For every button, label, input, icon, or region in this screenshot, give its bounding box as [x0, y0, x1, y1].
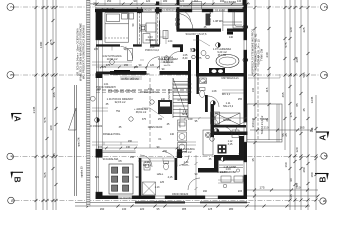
svg-text:HALL 5,2: HALL 5,2 [223, 105, 234, 108]
svg-text:525: 525 [95, 176, 100, 179]
svg-text:K1: K1 [158, 138, 162, 141]
svg-text:150: 150 [130, 156, 135, 159]
svg-text:75: 75 [199, 57, 202, 60]
svg-text:95: 95 [157, 207, 160, 210]
svg-text:215: 215 [238, 190, 243, 193]
svg-text:175: 175 [289, 112, 293, 117]
svg-text:300: 300 [49, 125, 53, 130]
svg-text:2145: 2145 [32, 106, 36, 113]
svg-text:SPIZ.: SPIZ. [182, 113, 189, 116]
svg-text:120: 120 [150, 64, 155, 67]
svg-text:525: 525 [43, 172, 47, 177]
svg-text:1400: 1400 [39, 41, 43, 48]
svg-text:255: 255 [158, 118, 163, 121]
svg-text:290: 290 [100, 207, 105, 210]
svg-text:290: 290 [128, 140, 133, 143]
svg-text:120: 120 [295, 147, 299, 152]
svg-text:3: 3 [323, 73, 328, 76]
svg-text:85: 85 [295, 183, 299, 187]
svg-text:1.09: 1.09 [188, 118, 193, 121]
svg-text:KOMIN SPAL.: KOMIN SPAL. [209, 11, 212, 25]
svg-text:spad 2%: spad 2% [78, 136, 81, 146]
svg-text:125: 125 [160, 181, 165, 184]
svg-text:90: 90 [136, 176, 139, 179]
svg-text:90: 90 [124, 48, 127, 51]
svg-text:2: 2 [10, 5, 15, 8]
svg-text:115: 115 [265, 87, 269, 92]
svg-text:H=270: H=270 [164, 65, 171, 67]
svg-text:289: 289 [302, 167, 306, 172]
svg-text:A: A [318, 134, 328, 140]
svg-text:B: B [318, 176, 328, 182]
svg-text:17x17,6/28: 17x17,6/28 [168, 88, 171, 101]
svg-text:240: 240 [252, 87, 255, 92]
svg-text:110: 110 [194, 0, 199, 3]
svg-text:140: 140 [229, 36, 234, 39]
svg-text:175: 175 [259, 186, 264, 190]
svg-text:4: 4 [9, 155, 14, 158]
svg-text:295: 295 [295, 57, 299, 62]
svg-text:O5: O5 [118, 160, 122, 163]
svg-text:165: 165 [134, 66, 139, 69]
svg-text:D1 100/210: D1 100/210 [179, 6, 191, 8]
svg-text:35: 35 [251, 158, 255, 162]
svg-text:240: 240 [161, 98, 166, 101]
svg-text:O2 90/150: O2 90/150 [140, 9, 152, 12]
svg-text:3: 3 [10, 73, 15, 76]
svg-text:365: 365 [52, 92, 56, 97]
svg-text:PANELE PODL.: PANELE PODL. [103, 133, 121, 136]
svg-text:375: 375 [106, 64, 111, 67]
svg-text:140: 140 [170, 133, 175, 136]
svg-text:225: 225 [302, 27, 306, 32]
svg-text:1.13: 1.13 [155, 186, 160, 189]
svg-text:32,15 m2: 32,15 m2 [115, 100, 126, 104]
svg-text:O1 150/150: O1 150/150 [101, 8, 115, 11]
svg-text:38,91 m2: 38,91 m2 [136, 111, 147, 114]
svg-text:POKOJ DZIENNY: POKOJ DZIENNY [96, 86, 116, 89]
svg-text:115: 115 [310, 127, 314, 132]
svg-text:90: 90 [147, 73, 150, 76]
svg-text:5: 5 [10, 199, 15, 202]
svg-text:JADALNIA: JADALNIA [106, 157, 119, 161]
svg-text:3,15: 3,15 [228, 143, 233, 146]
svg-text:4,15: 4,15 [168, 176, 173, 179]
svg-text:120: 120 [190, 47, 193, 52]
svg-text:1.08 WC: 1.08 WC [213, 19, 223, 23]
svg-text:120: 120 [180, 0, 185, 3]
svg-text:240: 240 [265, 52, 269, 57]
svg-text:POKOJ 11,2: POKOJ 11,2 [145, 49, 159, 52]
svg-text:UMYWALKA 2x: UMYWALKA 2x [221, 77, 239, 80]
svg-text:125: 125 [208, 207, 213, 210]
svg-text:250: 250 [107, 0, 112, 3]
svg-text:752: 752 [116, 110, 121, 113]
svg-text:130: 130 [126, 146, 131, 149]
svg-text:4: 4 [323, 154, 328, 157]
svg-text:90: 90 [162, 68, 165, 71]
svg-text:2: 2 [323, 5, 328, 8]
svg-text:385: 385 [182, 207, 187, 210]
svg-text:155: 155 [124, 64, 129, 67]
svg-text:HALL: HALL [157, 172, 164, 176]
svg-text:90: 90 [139, 64, 142, 67]
svg-text:WC 4,1: WC 4,1 [143, 164, 152, 167]
svg-text:5: 5 [322, 199, 327, 202]
svg-text:WC 2,1: WC 2,1 [222, 93, 231, 96]
svg-text:465: 465 [281, 92, 285, 97]
svg-text:375: 375 [142, 118, 147, 121]
svg-text:GRES 60x60: GRES 60x60 [148, 126, 163, 129]
svg-text:A: A [13, 116, 23, 122]
svg-text:150: 150 [163, 150, 168, 153]
svg-text:8,40: 8,40 [183, 57, 188, 60]
svg-text:OKNO 90/220: OKNO 90/220 [172, 192, 189, 196]
svg-text:PLYTKI: PLYTKI [218, 54, 227, 57]
svg-text:PODCIAG WG K.: PODCIAG WG K. [140, 91, 160, 94]
svg-text:90: 90 [195, 173, 198, 176]
svg-text:POKOJ: POKOJ [146, 38, 155, 42]
svg-text:210: 210 [263, 126, 268, 130]
svg-text:1.08: 1.08 [212, 90, 217, 93]
svg-text:35: 35 [289, 73, 293, 77]
svg-text:180: 180 [310, 172, 314, 177]
svg-text:280: 280 [229, 207, 234, 210]
svg-text:8,40 m2: 8,40 m2 [163, 60, 173, 64]
svg-text:KOTL.: KOTL. [182, 164, 190, 167]
svg-text:SCHODY 17x17,6: SCHODY 17x17,6 [185, 32, 207, 36]
svg-text:255: 255 [238, 98, 243, 101]
svg-text:235: 235 [94, 48, 99, 51]
svg-text:90: 90 [289, 178, 293, 182]
svg-text:375: 375 [102, 66, 107, 69]
svg-text:215: 215 [98, 146, 103, 149]
svg-text:150: 150 [116, 73, 121, 76]
svg-text:80/200: 80/200 [223, 119, 231, 122]
svg-text:PODCIAG WG KONSTR.: PODCIAG WG KONSTR. [108, 90, 137, 93]
svg-text:180: 180 [163, 0, 168, 3]
svg-text:O4 60/60: O4 60/60 [224, 0, 237, 4]
svg-text:130: 130 [122, 207, 127, 210]
svg-text:160: 160 [203, 190, 208, 193]
svg-text:90: 90 [157, 146, 160, 149]
svg-text:szafa 60: szafa 60 [217, 171, 227, 174]
svg-text:95: 95 [195, 120, 198, 123]
svg-text:575: 575 [284, 42, 288, 47]
svg-text:45: 45 [302, 108, 306, 112]
svg-text:13,96 m2: 13,96 m2 [107, 57, 118, 61]
svg-text:90: 90 [132, 23, 135, 26]
svg-text:160: 160 [284, 162, 288, 167]
svg-text:85: 85 [295, 103, 299, 107]
svg-text:25: 25 [289, 194, 293, 198]
svg-text:35: 35 [52, 153, 56, 157]
svg-text:O: 150/220: O: 150/220 [90, 125, 103, 128]
svg-text:TYNK CW: TYNK CW [260, 48, 264, 61]
svg-text:1.15 GOSP.: 1.15 GOSP. [223, 166, 236, 169]
svg-text:12,35 m2: 12,35 m2 [181, 150, 192, 154]
svg-text:O4 210/230: O4 210/230 [118, 197, 132, 200]
svg-text:D1 100/210: D1 100/210 [162, 9, 176, 12]
svg-text:B: B [13, 176, 23, 182]
svg-text:120: 120 [146, 0, 151, 3]
svg-text:1245: 1245 [310, 96, 314, 103]
svg-text:675: 675 [49, 39, 53, 44]
svg-text:35: 35 [209, 158, 212, 161]
svg-text:O5 90/150: O5 90/150 [154, 201, 166, 204]
svg-text:45: 45 [167, 123, 170, 126]
svg-text:120: 120 [289, 27, 293, 32]
svg-text:120: 120 [252, 117, 255, 122]
svg-text:WG. PROJEKTU KONSTRUKCJI BUDYN: WG. PROJEKTU KONSTRUKCJI BUDYNKU [82, 25, 86, 79]
svg-text:TARAS: TARAS [260, 117, 269, 121]
svg-text:595: 595 [302, 72, 306, 77]
svg-text:1.04: 1.04 [168, 40, 173, 43]
svg-text:90: 90 [134, 0, 137, 3]
svg-text:35: 35 [106, 103, 109, 106]
svg-text:575: 575 [43, 117, 47, 122]
svg-text:165: 165 [299, 126, 304, 130]
svg-text:220: 220 [140, 207, 145, 210]
svg-text:O3 60/60: O3 60/60 [215, 10, 226, 13]
svg-text:35: 35 [119, 126, 122, 129]
svg-text:140: 140 [237, 0, 242, 3]
svg-text:opaska 50: opaska 50 [81, 166, 84, 178]
svg-text:25: 25 [284, 133, 288, 137]
svg-text:D: 80/200: D: 80/200 [178, 99, 189, 102]
